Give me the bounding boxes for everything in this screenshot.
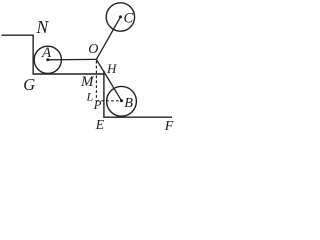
- dashed vertical O-M-P: [95, 61, 97, 99]
- table top wire: [33, 73, 104, 75]
- svg-text:P: P: [93, 98, 102, 112]
- circle B: [107, 86, 137, 116]
- dot C center: [119, 15, 122, 18]
- ground wire EF: [103, 116, 172, 118]
- svg-text:M: M: [80, 74, 95, 90]
- wire O to B: [96, 59, 121, 100]
- dot A center: [46, 58, 49, 61]
- dashed horizontal L to B: [96, 100, 119, 102]
- svg-text:B: B: [124, 96, 133, 111]
- wire A to O: [48, 58, 97, 60]
- ledge top wire: [2, 34, 34, 36]
- left wall wire: [32, 35, 34, 75]
- svg-text:A: A: [41, 45, 52, 61]
- svg-text:O: O: [88, 42, 98, 57]
- circle A: [34, 46, 61, 73]
- wire O to C: [96, 17, 120, 60]
- svg-text:N: N: [36, 17, 50, 37]
- svg-text:C: C: [124, 11, 134, 27]
- svg-text:E: E: [95, 117, 105, 132]
- svg-text:L: L: [86, 90, 94, 104]
- circle C: [106, 3, 134, 31]
- svg-text:F: F: [164, 119, 174, 133]
- step wall wire: [103, 71, 105, 118]
- dot B center: [120, 99, 123, 102]
- svg-text:G: G: [23, 75, 35, 94]
- svg-text:H: H: [106, 61, 117, 76]
